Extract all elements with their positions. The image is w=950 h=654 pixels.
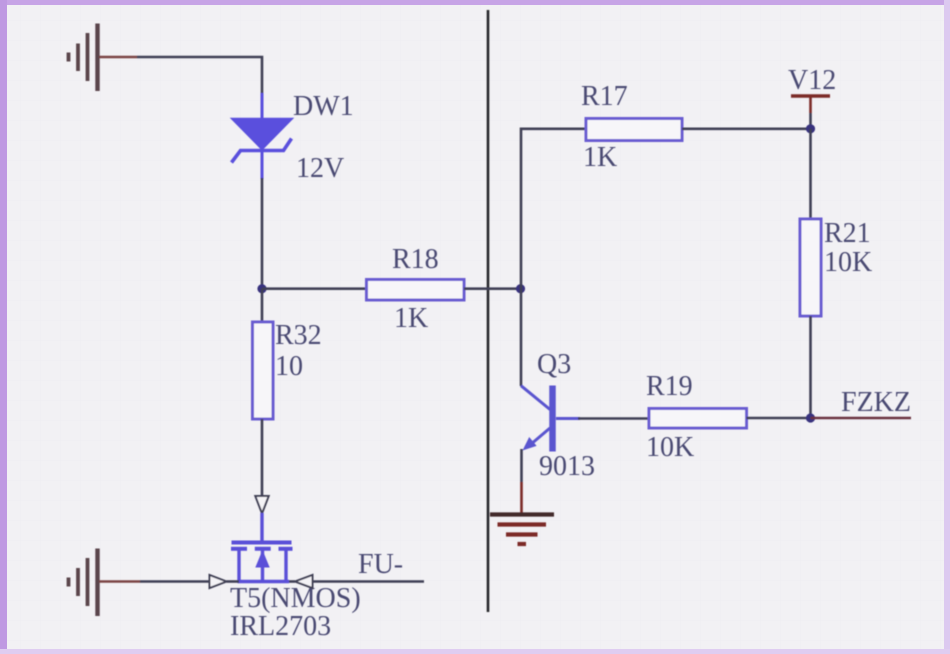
svg-text:1K: 1K — [394, 303, 428, 334]
wire FU- — [313, 580, 425, 583]
zener diode DW1 — [232, 93, 293, 179]
resistor R17 — [586, 119, 682, 141]
svg-text:R17: R17 — [581, 81, 628, 112]
wire R18 to node B — [464, 287, 521, 290]
wire entry arrow (source, open, pointing right) — [210, 575, 227, 588]
wire mosfet to right arrow — [289, 580, 295, 583]
svg-text:R18: R18 — [392, 244, 439, 275]
svg-text:9013: 9013 — [539, 451, 595, 482]
wire FZKZ — [811, 417, 912, 420]
resistor R18 — [367, 280, 465, 301]
wire R19 to FZKZ node — [747, 417, 811, 420]
wire node B up to R17 level — [521, 129, 586, 289]
wire entry arrow (FU-, open, pointing left) — [295, 575, 313, 588]
wire entry arrow (gate, open, pointing down) — [255, 496, 268, 514]
resistor R19 — [649, 409, 747, 429]
svg-text:10K: 10K — [646, 432, 694, 463]
svg-text:10K: 10K — [824, 247, 872, 278]
wire arrow to mosfet — [227, 580, 240, 583]
wire emitter to ground (maroon) — [520, 482, 523, 515]
power symbol V12 — [791, 96, 830, 129]
svg-text:Q3: Q3 — [537, 349, 571, 380]
ground GND2 (bottom-left) — [69, 549, 98, 617]
divider line — [487, 10, 490, 612]
wire ground1 to DW1 top corner — [137, 57, 262, 95]
svg-text:R21: R21 — [824, 218, 871, 249]
wire ground1 stub — [99, 56, 137, 59]
wire V12 node to R21 — [809, 129, 812, 219]
wire R21 to FZKZ node — [809, 316, 812, 418]
svg-text:R32: R32 — [275, 320, 322, 351]
MOSFET T5 (NMOS) — [231, 513, 293, 582]
svg-text:DW1: DW1 — [293, 91, 354, 122]
wire Q3 emitter down — [520, 449, 523, 482]
svg-text:1K: 1K — [583, 142, 617, 173]
svg-text:T5(NMOS): T5(NMOS) — [230, 583, 361, 614]
wire node B down to Q3 collector — [520, 289, 523, 386]
resistor R32 — [253, 289, 274, 497]
svg-text:10: 10 — [275, 351, 303, 382]
wire Q3 base to R19 — [578, 417, 649, 420]
wire ground2 to source arrow — [140, 580, 210, 583]
svg-text:FU-: FU- — [358, 549, 403, 580]
wire node A to R18 — [262, 287, 367, 290]
node FZKZ junction dot — [806, 413, 815, 422]
svg-text:IRL2703: IRL2703 — [230, 611, 331, 642]
ground GND3 (below Q3) — [490, 515, 554, 545]
ground GND1 (top-left) — [69, 24, 98, 92]
wire R17 to V12 node — [682, 128, 811, 131]
wire DW1 to node A — [261, 178, 264, 289]
transistor Q3 (NPN, mirrored) — [521, 386, 580, 452]
node B junction dot — [516, 284, 525, 293]
node V12 junction dot — [806, 124, 815, 133]
wire ground2 stub — [99, 580, 140, 583]
resistor R21 — [800, 219, 821, 316]
svg-text:12V: 12V — [296, 153, 344, 184]
svg-text:V12: V12 — [788, 65, 836, 96]
svg-text:R19: R19 — [646, 371, 693, 402]
svg-text:FZKZ: FZKZ — [841, 387, 911, 418]
node A junction dot — [257, 284, 266, 293]
